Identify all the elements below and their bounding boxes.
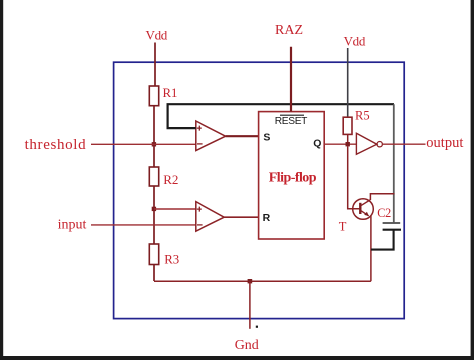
node: ground junction dot xyxy=(248,279,253,283)
wire comparator1 + input loop to capacitor node (black) xyxy=(168,104,394,128)
wire RAZ down to RESET xyxy=(290,47,292,112)
svg-text:input: input xyxy=(58,217,87,232)
wire ground rail (bottom horizontal) xyxy=(154,280,371,282)
wire collector up and right to C2 node xyxy=(370,194,394,200)
wire comparator1 output to S xyxy=(226,135,259,137)
svg-text:R3: R3 xyxy=(164,253,179,267)
capacitor C2 xyxy=(383,223,401,230)
flip-flop U3 box xyxy=(259,112,325,239)
resistor R2 xyxy=(149,167,158,186)
frame bars (decorative) xyxy=(0,0,3,360)
wire R1 to R2 (voltage divider) xyxy=(153,106,155,167)
wire Q output to node xyxy=(324,143,356,145)
stray dot near Gnd xyxy=(256,326,258,328)
svg-text:R2: R2 xyxy=(163,172,178,187)
resistor R5 xyxy=(343,117,352,134)
svg-text:S: S xyxy=(263,132,270,144)
svg-text:R5: R5 xyxy=(355,109,370,123)
wire emitter down to ground rail xyxy=(370,216,372,281)
wire inverter to output xyxy=(382,143,425,145)
node: threshold junction dot xyxy=(152,142,156,146)
wire R5 bottom to Q node xyxy=(347,134,349,144)
svg-text:output: output xyxy=(426,135,463,151)
svg-text:Vdd: Vdd xyxy=(146,28,168,43)
svg-text:T: T xyxy=(339,220,347,234)
resistor R1 xyxy=(149,86,158,106)
wire R3 down to ground rail xyxy=(153,265,155,282)
svg-text:Q: Q xyxy=(313,138,321,150)
wire C2 bottom plate to emitter (black) xyxy=(371,230,394,250)
svg-text:Vdd: Vdd xyxy=(344,33,366,48)
op-amp U1 (threshold comparator) xyxy=(196,121,226,151)
svg-text:Gnd: Gnd xyxy=(235,338,259,353)
svg-text:threshold: threshold xyxy=(25,137,87,153)
wire R2 to R3 (voltage divider) xyxy=(153,186,155,244)
transistor T xyxy=(353,199,374,220)
wire divider node to comparator2 + input xyxy=(154,208,196,210)
node: Q junction dot xyxy=(346,142,350,146)
pin label RESET with overline xyxy=(275,115,307,127)
wire capacitor C2 top feed (gray vertical) xyxy=(393,104,395,222)
svg-text:R1: R1 xyxy=(163,86,178,100)
resistor R3 xyxy=(149,244,158,265)
wire Vdd-left down to R1 xyxy=(154,43,156,87)
op-amp U2 (trigger comparator) xyxy=(196,202,224,232)
wire Q node down to transistor base xyxy=(348,146,360,208)
wire Vdd-right down to R5 xyxy=(347,48,349,117)
wire threshold line xyxy=(91,143,196,145)
IC boundary box xyxy=(114,62,405,318)
svg-text:RAZ: RAZ xyxy=(275,23,303,38)
node: comparator2 reference junction dot xyxy=(152,207,156,211)
svg-text:R: R xyxy=(263,212,271,224)
wire comparator2 output to R xyxy=(224,216,258,218)
wire ground stub down xyxy=(249,281,251,329)
wire input line xyxy=(91,224,196,226)
svg-text:RESET: RESET xyxy=(275,116,307,127)
svg-text:C2: C2 xyxy=(377,206,391,220)
svg-text:Flip-flop: Flip-flop xyxy=(269,171,317,186)
inverter U4 xyxy=(356,133,382,154)
